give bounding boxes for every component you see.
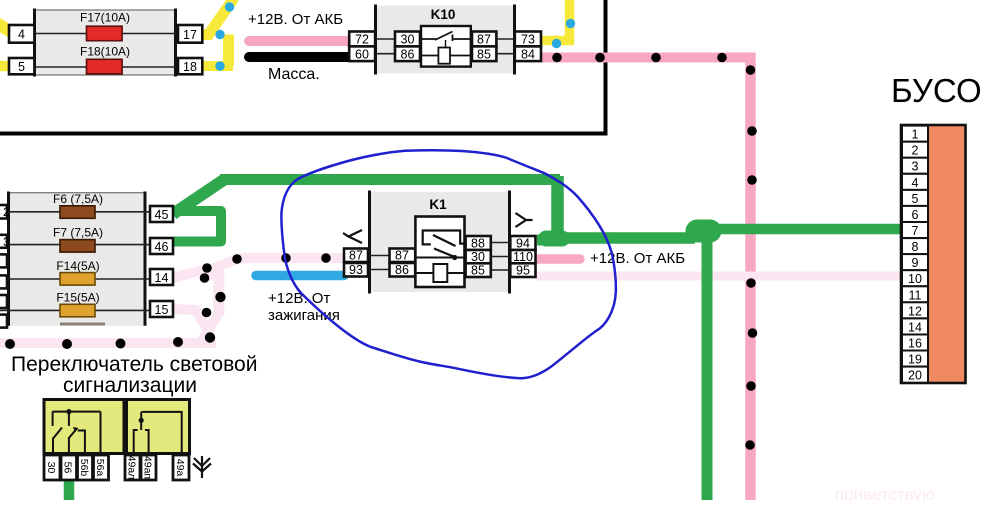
wire green junction blob at pin94 [546, 231, 562, 247]
wire row F7 [0, 244, 150, 246]
BUSO pin numbers [908, 128, 922, 383]
switch pin 49ar [141, 455, 156, 480]
wire yellow stub into pin4 [0, 22, 11, 32]
node dot pink horiz 1 [552, 53, 562, 63]
svg-text:45: 45 [155, 208, 169, 222]
relay K10 contact row [421, 38, 471, 40]
node dot pale bend 1 [202, 263, 212, 273]
svg-text:56b: 56b [78, 459, 90, 477]
svg-text:приветствую: приветствую [835, 485, 935, 500]
fuse block body [9, 193, 146, 326]
wire pink from K10 pin84 right [542, 53, 751, 63]
relay K10 inner box [421, 26, 471, 67]
WIRES-YELLOW [0, 0, 574, 66]
relay K1 lever upper [433, 235, 456, 246]
svg-text:5: 5 [18, 60, 25, 74]
wire pale-pink re-draw over pink vertical (95 to BUSO10 on top) [740, 272, 762, 281]
fuse F15 5A [60, 304, 95, 317]
wire green top horizontal [220, 174, 560, 185]
wire row 85-95 [491, 269, 511, 271]
svg-text:49aл: 49aл [126, 456, 138, 480]
wire pale-pink vertical bus [213, 264, 224, 315]
pin stub row3 [0, 254, 7, 267]
wire pink +12V AKB stub from K1 pin110 [538, 254, 580, 264]
svg-text:7: 7 [912, 224, 919, 238]
relay K1 coil row right [447, 272, 464, 274]
node dot pale bottom line 4 [5, 339, 15, 349]
node cyan dot K10 yellow vert [566, 19, 575, 28]
wire row coil right [450, 55, 471, 57]
wire pale-pink bottom horizontal [0, 338, 216, 348]
wire row pin4-F17-pin17 [34, 33, 176, 35]
relay K1 body [369, 192, 510, 292]
wire yellow vertical link 17-18 [223, 35, 234, 67]
wire green main horizontal segment B to BUSO pin7 [700, 224, 905, 235]
wire row 60-86 [375, 53, 395, 55]
pin 5 [9, 58, 34, 74]
wire row 93-86 [368, 269, 390, 271]
wire green diagonal from fuse pin45 [173, 179, 225, 214]
wire blue +12V ignition to K1 pin93 [256, 271, 344, 281]
node dot pale bottom line 1 [173, 337, 183, 347]
pin 30 [395, 32, 420, 47]
switch lever arrowhead [73, 427, 79, 432]
relay K1 coil [433, 264, 447, 282]
switch pin labels rotated [45, 456, 186, 480]
svg-text:+12В. От АКБ: +12В. От АКБ [248, 11, 343, 28]
wire green vertical trunk down [702, 234, 713, 500]
svg-text:8: 8 [912, 240, 919, 254]
svg-text:16: 16 [908, 337, 922, 351]
WIRES-PALE-PINK [0, 258, 904, 343]
pin 72 [349, 32, 375, 47]
relay K1 contact node dot [452, 255, 457, 260]
wire pale-pink top line to K1 pin87 [207, 258, 345, 279]
node dot pale bottom line 3 [62, 339, 72, 349]
node cyan dot yellow diag top [225, 2, 234, 11]
svg-text:30: 30 [401, 33, 415, 47]
relay K1 coil row left [415, 272, 433, 274]
svg-text:87: 87 [395, 249, 409, 263]
svg-text:56a: 56a [94, 459, 106, 477]
annotation ellipse (hand-drawn) [281, 150, 615, 378]
wire pink vertical trunk [745, 53, 756, 501]
node dot pale bus bottom [205, 332, 215, 342]
enclosure box border (fuse/relay block outline, cropped) [0, 0, 606, 134]
switch pin 49a [173, 455, 189, 480]
svg-text:F7 (7,5A): F7 (7,5A) [53, 226, 103, 240]
svg-text:110: 110 [513, 250, 533, 264]
svg-text:F17(10A): F17(10A) [80, 11, 130, 25]
fuse F14 5A [60, 273, 95, 286]
wire row 88-94 [491, 242, 511, 244]
pin 85 [466, 263, 491, 277]
wire row F15 [0, 309, 150, 311]
pin 84 [515, 46, 541, 61]
WIRES-PINK [249, 41, 751, 500]
relay K1 row 30 line [415, 257, 464, 259]
svg-text:49aп: 49aп [142, 456, 154, 479]
wire row 87-73 [496, 38, 514, 40]
svg-text:F6 (7,5A): F6 (7,5A) [53, 192, 103, 206]
relay K1 lever lower [434, 249, 455, 258]
wire row 30-110 [491, 256, 511, 258]
node dot pale top 3 [321, 253, 331, 263]
fuse block body [34, 10, 176, 75]
relay K1 inner box [415, 217, 464, 288]
node dot pale top 1 [232, 254, 242, 264]
pin 73 [515, 32, 541, 47]
svg-text:30: 30 [45, 462, 57, 474]
node cyan dot K10 yellow horiz [552, 39, 561, 48]
node dot pink horiz 2 [595, 53, 605, 63]
svg-text:85: 85 [471, 264, 485, 278]
node dot pale bus 2 [202, 308, 212, 318]
wire yellow vertical to top edge [565, 0, 575, 44]
pin 46 [150, 238, 173, 254]
BUSO body [901, 125, 966, 383]
svg-text:K1: K1 [429, 197, 447, 212]
svg-text:11: 11 [909, 288, 922, 302]
svg-text:46: 46 [155, 240, 169, 254]
svg-text:19: 19 [908, 353, 922, 367]
fuse F6 7.5A [60, 206, 95, 219]
svg-text:6: 6 [912, 208, 919, 222]
pin stub row2 [0, 235, 7, 248]
svg-text:F18(10A): F18(10A) [80, 45, 130, 59]
svg-text:73: 73 [521, 33, 535, 47]
node dot pale bus 1 [215, 292, 225, 302]
switch pin 56a [94, 455, 109, 480]
svg-text:Масса.: Масса. [268, 66, 320, 83]
switch left bus dot [66, 409, 71, 414]
node dot pink vert 5 [748, 328, 758, 338]
pin 85 [472, 46, 496, 61]
svg-text:3: 3 [912, 160, 919, 174]
wire pink +12V AKB into K10 pin72 [249, 36, 350, 46]
wire pale-pink from K1 pin95 to BUSO pin10 [536, 272, 904, 281]
ground arrow symbol [193, 456, 211, 478]
switch pin 49al [125, 455, 140, 480]
svg-text:3: 3 [3, 235, 10, 249]
svg-text:49a: 49a [174, 459, 186, 477]
svg-text:72: 72 [355, 33, 369, 47]
svg-text:14: 14 [155, 271, 169, 285]
connector arrow left [343, 230, 362, 243]
wire pale-pink from fuse pin14 [172, 268, 212, 278]
svg-text:10: 10 [908, 272, 922, 286]
svg-text:4: 4 [912, 176, 919, 190]
svg-text:87: 87 [349, 249, 363, 263]
wire row F14 [0, 278, 150, 280]
wire row 85-84 [496, 53, 514, 55]
pin 93 [344, 263, 368, 277]
pin 86 [390, 263, 416, 277]
fuse F7 7.5A [60, 240, 95, 253]
wire yellow from K10 pin73 [542, 36, 574, 46]
switch right internals [134, 412, 182, 453]
pin 94 [510, 236, 535, 250]
wire green pin94 stub [537, 235, 556, 246]
wire green junction blob at trunk split [697, 220, 710, 243]
switch right pivot dot [139, 418, 144, 423]
svg-text:60: 60 [355, 48, 369, 62]
pin 60 [349, 46, 375, 61]
relay K10 body [375, 6, 515, 74]
pin 15 [150, 301, 173, 317]
svg-text:14: 14 [908, 320, 922, 334]
pin 110 [510, 250, 535, 263]
wire pale-pink bus to bottom line [202, 313, 219, 340]
svg-text:84: 84 [521, 48, 535, 62]
svg-text:86: 86 [395, 263, 409, 277]
wire green main horizontal segment A [552, 232, 695, 244]
wire row coil left [421, 55, 438, 57]
switch left box [44, 400, 124, 454]
node dot pink vert 2 [747, 126, 757, 136]
wire green C-loop pin45 to pin46 [174, 211, 221, 242]
wire yellow from pin18 [201, 61, 233, 71]
svg-text:87: 87 [477, 33, 491, 47]
svg-text:95: 95 [516, 264, 530, 278]
svg-text:17: 17 [183, 28, 197, 42]
pin stub row5 [0, 295, 7, 308]
svg-text:1: 1 [912, 128, 919, 142]
pin 45 [150, 206, 173, 222]
node dot pale bend 2 [200, 273, 210, 283]
pin 87 [472, 32, 496, 47]
svg-text:12: 12 [908, 304, 922, 318]
wire row F6 [0, 211, 150, 213]
pin 87 outer left [344, 249, 368, 263]
svg-text:2: 2 [3, 205, 10, 219]
fuse F18 10A [87, 59, 123, 74]
pin stub row4 [0, 275, 7, 288]
svg-text:18: 18 [183, 60, 197, 74]
JUNCTION DOTS black [5, 53, 757, 450]
pin stub row1 [0, 205, 7, 219]
JUNCTION DOTS cyan [215, 2, 575, 70]
pin 18 [178, 58, 202, 74]
svg-text:2: 2 [912, 144, 919, 158]
wire yellow stub into pin5 [0, 61, 11, 72]
wire pale-pink from fuse pin15 [172, 309, 211, 336]
node dot pink vert 7 [745, 440, 755, 450]
node dot pink vert 6 [746, 381, 756, 391]
wire green vertical down to K1 pin94 [551, 176, 564, 234]
pin 14 [150, 269, 173, 285]
svg-text:93: 93 [349, 263, 363, 277]
switch pin 30 [44, 455, 60, 480]
wire green from switch pin56 down [64, 479, 75, 500]
node dot pink horiz 4 [717, 53, 727, 63]
svg-text:30: 30 [471, 250, 485, 264]
node dot pink vert 4 [746, 278, 756, 288]
relay K10 actuator link [445, 40, 447, 48]
relay K10 contact lever [435, 32, 453, 42]
svg-text:15: 15 [155, 303, 169, 317]
switch pin 56 [61, 455, 77, 480]
node dot pink vert 3 [747, 175, 757, 185]
wire row 72-30 [375, 38, 395, 40]
switch right box [127, 400, 190, 454]
wire row 87L [368, 255, 390, 257]
svg-text:F15(5A): F15(5A) [56, 291, 99, 305]
svg-text:K10: K10 [431, 7, 456, 22]
node dot pink horiz 3 [651, 53, 661, 63]
node dot pale bottom line 2 [116, 339, 126, 349]
pin 17 [178, 25, 202, 43]
pin stub row6 [0, 315, 7, 328]
svg-text:БУСО: БУСО [891, 72, 982, 109]
switch pin 56b [78, 455, 93, 480]
svg-text:56: 56 [62, 462, 74, 474]
svg-text:88: 88 [471, 237, 485, 251]
wire black Massa to K10 pin60 [249, 52, 350, 62]
svg-text:9: 9 [912, 256, 919, 270]
node cyan dot pin17 junction [215, 30, 224, 39]
svg-text:4: 4 [18, 28, 25, 42]
svg-text:Переключатель световой: Переключатель световой [11, 353, 257, 376]
fuse F17 10A [87, 26, 123, 41]
wire row pin5-F18-pin18 [34, 66, 176, 68]
pin 30 [466, 250, 491, 263]
cut fuse label remnant [60, 323, 105, 326]
pin 4 [9, 25, 34, 43]
svg-text:сигнализации: сигнализации [63, 374, 197, 397]
node dot pink vert 1 [746, 65, 756, 75]
WIRES-GREEN [69, 176, 905, 500]
connector arrow right [516, 213, 533, 227]
svg-text:94: 94 [516, 237, 530, 251]
pin 86 [395, 46, 420, 61]
svg-text:20: 20 [908, 369, 922, 383]
svg-text:+12В. От АКБ: +12В. От АКБ [590, 250, 685, 267]
relay K10 coil [438, 48, 450, 64]
svg-text:86: 86 [401, 48, 415, 62]
pin 88 [466, 236, 491, 250]
relay K1 fixed contact bracket [423, 231, 465, 245]
wire yellow diagonal to top edge [207, 0, 234, 37]
wire yellow from pin17 [201, 29, 212, 40]
node dot pale top 2 [281, 253, 291, 263]
switch left internals [52, 412, 100, 453]
node cyan dot pin18 junction [215, 61, 224, 70]
svg-text:F14(5A): F14(5A) [56, 259, 99, 273]
pin 87 inner left [390, 249, 416, 263]
pin 95 [510, 263, 535, 277]
svg-text:5: 5 [912, 192, 919, 206]
svg-text:зажигания: зажигания [268, 307, 340, 324]
svg-text:85: 85 [477, 48, 491, 62]
BUSO pin column [902, 126, 928, 383]
